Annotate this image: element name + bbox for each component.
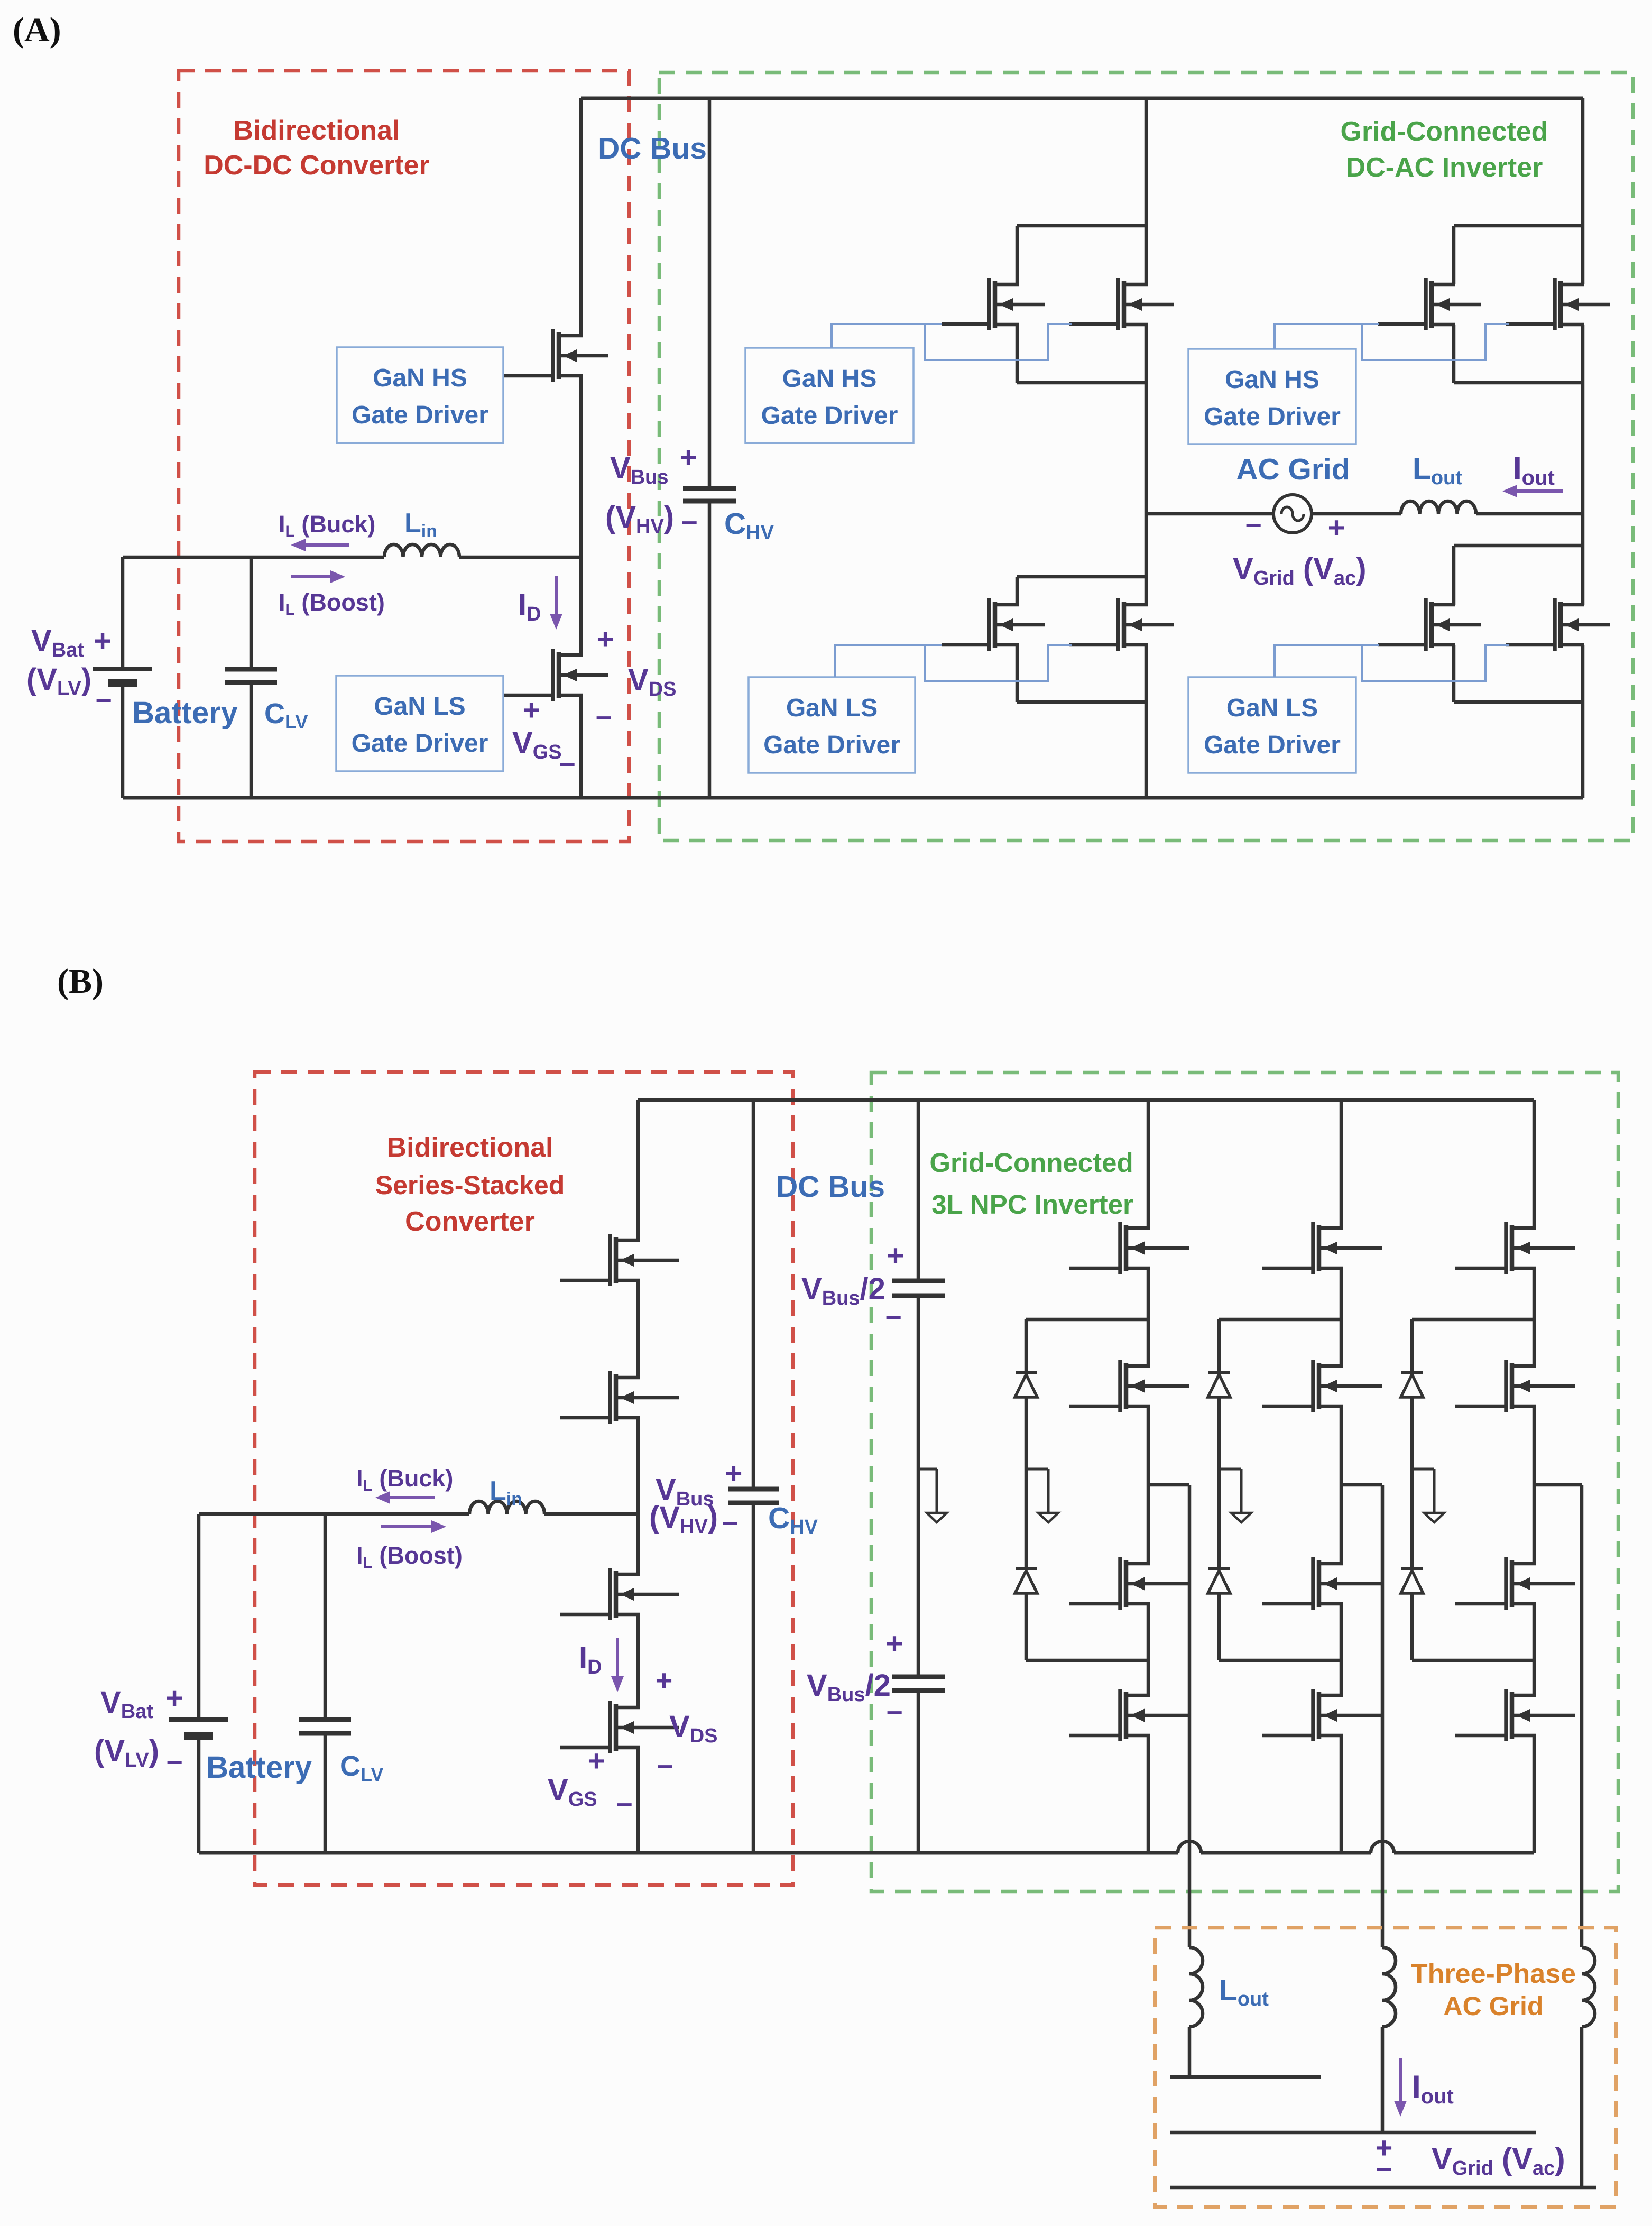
- svg-text:+: +: [886, 1627, 903, 1660]
- wire grid line 1 (B): [1170, 2075, 1321, 2079]
- svg-text:−: −: [559, 749, 576, 780]
- arrow IL buck direction (B): [386, 1496, 435, 1499]
- wire inverter leg x=2168 lower (A): [1145, 645, 1148, 798]
- svg-text:−: −: [722, 1508, 739, 1539]
- wire bottom return rail (B) with hops at phase outputs: [199, 1851, 1178, 1855]
- wire LS pair source rail (A leg 2168): [1016, 645, 1019, 702]
- svg-text:−: −: [657, 1751, 673, 1782]
- svg-text:−: −: [886, 1697, 903, 1729]
- transistor Q5 stacked third switch (B): [608, 1568, 612, 1620]
- wire NPC leg 1 phase output drop (B): [1188, 1485, 1192, 1947]
- gate driver U5 GaN HS Gate Driver (A leg2): [1188, 349, 1356, 444]
- wire HS gate stubs (A leg 2994): [1378, 322, 1426, 326]
- wire phase node (A leg 2994): [1581, 325, 1585, 605]
- svg-text:Series-Stacked: Series-Stacked: [375, 1170, 565, 1200]
- wire blue gate wiring 2 (box 2248 to right gate): [1362, 324, 1509, 360]
- wire Q2 source to return (A): [579, 695, 583, 798]
- wire grid line 3 (B): [1170, 2186, 1596, 2190]
- wire phase 3 to grid line 3 (B): [1580, 2027, 1584, 2187]
- transistor HS right device on leg 2994 (A): [1553, 278, 1557, 330]
- wire NPC leg 1 M3-M4 (B): [1147, 1604, 1150, 1695]
- svg-text:−: −: [616, 1789, 633, 1821]
- svg-text:DC-DC Converter: DC-DC Converter: [204, 150, 430, 181]
- diode NPC leg 3 clamp D2 (B): [1401, 1571, 1423, 1593]
- svg-text:GaN LS: GaN LS: [786, 694, 878, 722]
- wire NPC leg 1 top (B): [1147, 1100, 1150, 1228]
- transistor NPC leg 2 M1 (B): [1311, 1222, 1315, 1274]
- red dashed boundary: Bidirectional Series-Stacked Converter (B): [255, 1072, 793, 1885]
- wire blue gate wiring 2 (box 2248 to right gate): [1362, 645, 1509, 681]
- neutral tap arrow NPC leg 3 (B): [1412, 1468, 1434, 1471]
- wire inverter leg x=2168 upper (A): [1145, 98, 1148, 284]
- svg-text:3L NPC Inverter: 3L NPC Inverter: [931, 1189, 1133, 1220]
- gate driver U1 GaN HS Gate Driver (A DC-DC): [337, 347, 503, 443]
- wire blue gate wiring 2 (box 1416 to right gate): [925, 645, 1072, 681]
- transistor Q4 stacked second switch (B): [608, 1371, 612, 1424]
- wire NPC leg 3 top (B): [1533, 1100, 1536, 1228]
- svg-text:+: +: [680, 440, 697, 474]
- inductor Lin (A): [384, 544, 459, 557]
- wire NPC leg 3 clamp top connector (B): [1412, 1318, 1534, 1322]
- wire Q5 gate stub (B): [560, 1613, 610, 1617]
- wire HS pair drain rail (A leg 2994): [1454, 224, 1583, 228]
- wire between Q5 and Q6 (B): [636, 1614, 640, 1707]
- wire Q6 source to return (B): [636, 1748, 640, 1853]
- wire bottom return rail (A): [123, 796, 1583, 800]
- svg-text:Gate Driver: Gate Driver: [763, 731, 900, 759]
- capacitor VBus/2 lower (B): [892, 1675, 945, 1679]
- svg-text:−: −: [885, 1301, 902, 1333]
- svg-text:Gate Driver: Gate Driver: [352, 729, 488, 758]
- transistor NPC leg 3 M2 (B): [1504, 1360, 1508, 1412]
- wire NPC leg 2 M2 to output node (B): [1340, 1406, 1343, 1564]
- wire Q4 gate stub (B): [560, 1416, 610, 1420]
- wire LS pair drain rail (A leg 2994): [1454, 544, 1583, 548]
- svg-text:−: −: [595, 702, 612, 734]
- svg-text:GaN HS: GaN HS: [1225, 366, 1319, 394]
- wire battery input node (B): [199, 1512, 469, 1516]
- wire NPC leg 2 M3-M4 (B): [1340, 1604, 1343, 1695]
- svg-text:Bidirectional: Bidirectional: [234, 115, 400, 146]
- wire Q3 gate stub (B): [560, 1279, 610, 1282]
- transistor NPC leg 1 M4 (B): [1118, 1689, 1122, 1741]
- wire NPC leg 3 clamp string lower (B): [1410, 1593, 1414, 1660]
- svg-text:−: −: [1245, 510, 1262, 541]
- transistor NPC leg 1 M2 (B): [1118, 1360, 1122, 1412]
- gate driver U2 GaN LS Gate Driver (A DC-DC): [336, 676, 503, 771]
- wire AC output left segment (A): [1146, 512, 1273, 516]
- svg-text:Gate Driver: Gate Driver: [352, 401, 488, 429]
- svg-text:Gate Driver: Gate Driver: [1204, 731, 1341, 759]
- wire NPC leg 1 M2 to output node (B): [1147, 1406, 1150, 1564]
- wire NPC leg 2 M1-M2 (B): [1340, 1268, 1343, 1366]
- svg-text:GaN LS: GaN LS: [374, 692, 465, 721]
- capacitor VBus/2 upper (B): [892, 1279, 945, 1283]
- wire series-stacked leg top (B): [636, 1100, 640, 1240]
- wire phase node (A leg 2168): [1145, 325, 1148, 605]
- wire NPC leg 3 clamp string upper (B): [1410, 1319, 1414, 1373]
- svg-text:+: +: [94, 624, 112, 658]
- svg-text:+: +: [523, 693, 540, 726]
- svg-text:Gate Driver: Gate Driver: [761, 402, 898, 430]
- wire NPC leg 1 clamp top connector (B): [1026, 1318, 1148, 1322]
- wire LS pair source rail (A leg 2994): [1452, 645, 1456, 702]
- wire NPC leg 3 M2 to output node (B): [1533, 1406, 1536, 1564]
- gate driver U3 GaN HS Gate Driver (A leg1): [745, 348, 913, 443]
- transistor Q3 stacked top switch (B): [608, 1234, 612, 1286]
- wire Lin to switch node (A): [459, 556, 581, 559]
- wire Q2 gate lead (A): [503, 694, 553, 697]
- wire HS pair drain rail (A leg 2168): [1017, 224, 1146, 228]
- wire blue gate wiring 1 (box 2248 to gates at y=613): [1275, 324, 1379, 349]
- battery VBat (A): [121, 557, 125, 669]
- diode NPC leg 2 clamp D2 (B): [1208, 1571, 1230, 1593]
- svg-text:−: −: [681, 507, 698, 539]
- arrow IL buck direction (A): [301, 543, 349, 547]
- inductor Lout phase 3 (B): [1582, 1947, 1595, 2027]
- diode NPC leg 1 clamp D2 (B): [1015, 1571, 1037, 1593]
- wire AC source to Lout (A): [1312, 512, 1401, 516]
- capacitor CHV (A): [708, 98, 712, 488]
- svg-text:Gate Driver: Gate Driver: [1204, 403, 1341, 431]
- transistor LS right device on leg 2994 (A): [1553, 598, 1557, 651]
- svg-text:GaN LS: GaN LS: [1226, 694, 1318, 722]
- svg-text:GaN HS: GaN HS: [373, 364, 467, 392]
- wire top DC bus rail (B): [638, 1098, 1534, 1102]
- svg-text:−: −: [1376, 2154, 1392, 2185]
- svg-text:IL (Boost): IL (Boost): [279, 589, 385, 618]
- transistor NPC leg 3 M3 (B): [1504, 1557, 1508, 1610]
- wire grid line 2 (B): [1170, 2131, 1536, 2135]
- wire Q6 gate stub (B): [560, 1746, 610, 1750]
- wire NPC leg 1 bottom (B): [1147, 1735, 1150, 1853]
- transistor NPC leg 3 M1 (B): [1504, 1222, 1508, 1274]
- wire Lin to leg (B): [544, 1512, 638, 1516]
- wire NPC leg 1 clamp bottom connector (B): [1026, 1659, 1148, 1662]
- svg-text:Battery: Battery: [132, 696, 238, 730]
- wire NPC leg 1 M1-M2 (B): [1147, 1268, 1150, 1366]
- gate driver U6 GaN LS Gate Driver (A leg2): [1188, 677, 1356, 773]
- gate driver U4 GaN LS Gate Driver (A leg1): [749, 677, 915, 773]
- wire HS pair source rail (A leg 2994): [1452, 325, 1456, 383]
- neutral tap arrow NPC leg 1 (B): [1026, 1468, 1048, 1471]
- svg-text:+: +: [725, 1456, 743, 1490]
- neutral tap arrow from split-capacitor midpoint (B): [918, 1468, 937, 1471]
- arrow IL boost direction (B): [381, 1525, 436, 1528]
- wire phase 2 to grid line 2 (B): [1381, 2027, 1385, 2132]
- wire NPC leg 2 top (B): [1340, 1100, 1343, 1228]
- wire between Q3 and Q4 (B): [636, 1280, 640, 1378]
- wire phase 1 to grid line 1 (B): [1188, 2027, 1192, 2077]
- transistor HS left paralleled device (A leg 2168): [987, 278, 991, 330]
- svg-text:+: +: [597, 622, 614, 655]
- svg-text:Converter: Converter: [405, 1206, 535, 1237]
- wire blue gate wiring 1 (box 2248 to gates at y=1220): [1275, 645, 1379, 677]
- wire NPC leg 3 clamp bottom connector (B): [1412, 1659, 1534, 1662]
- wire NPC leg 3 phase output tap (B): [1534, 1483, 1582, 1487]
- arrow Iout direction (A): [1513, 489, 1563, 493]
- wire NPC leg 3 bottom (B): [1533, 1735, 1536, 1853]
- wire inverter leg x=2994 upper (A): [1581, 98, 1585, 284]
- wire NPC leg 1 clamp string lower (B): [1025, 1593, 1028, 1660]
- neutral tap arrow NPC leg 2 (B): [1219, 1468, 1241, 1471]
- svg-text:−: −: [166, 1747, 183, 1778]
- transistor LS left paralleled device (A leg 2168): [987, 598, 991, 651]
- wire LS pair drain rail (A leg 2168): [1017, 575, 1146, 579]
- svg-text:Three-Phase: Three-Phase: [1411, 1959, 1576, 1989]
- wire NPC leg 2 clamp bottom connector (B): [1219, 1659, 1341, 1662]
- svg-text:+: +: [165, 1681, 183, 1715]
- arrow IL boost direction (A): [291, 575, 335, 578]
- wire blue gate wiring 1 (box 1410 to gates at y=613): [832, 324, 942, 348]
- transistor NPC leg 1 M1 (B): [1118, 1222, 1122, 1274]
- wire Q4 source to Lin node (B): [636, 1418, 640, 1574]
- wire HS gate stubs (A leg 2168): [942, 322, 989, 326]
- svg-text:+: +: [1328, 511, 1345, 544]
- orange dashed boundary: Three-Phase AC Grid (B): [1155, 1928, 1616, 2207]
- inductor Lout phase 2 (B): [1382, 1947, 1396, 2027]
- diode NPC leg 3 clamp D1 (B): [1401, 1374, 1423, 1397]
- wire DC-DC switching leg upper (A): [579, 98, 583, 336]
- wire NPC leg 2 phase output drop (B): [1381, 1485, 1385, 1947]
- svg-text:+: +: [588, 1744, 605, 1777]
- transistor NPC leg 2 M3 (B): [1311, 1557, 1315, 1610]
- wire LS gate stubs (A leg 2994): [1378, 643, 1426, 647]
- svg-text:DC Bus: DC Bus: [598, 132, 707, 165]
- wire NPC leg 3 M1-M2 (B): [1533, 1268, 1536, 1366]
- transistor LS left paralleled device (A leg 2994): [1424, 598, 1428, 651]
- transistor NPC leg 2 M4 (B): [1311, 1689, 1315, 1741]
- svg-text:Battery: Battery: [206, 1750, 312, 1785]
- wire top DC bus rail (A): [581, 97, 1583, 100]
- svg-text:(B): (B): [57, 962, 104, 1001]
- svg-text:−: −: [95, 685, 112, 716]
- wire HS pair source rail (A leg 2168): [1016, 325, 1019, 383]
- transistor LS right device on leg 2168 (A): [1116, 598, 1120, 651]
- svg-text:Grid-Connected: Grid-Connected: [929, 1148, 1133, 1178]
- wire NPC leg 2 clamp string upper (B): [1217, 1319, 1221, 1373]
- wire NPC leg 3 clamp string middle (B): [1410, 1397, 1414, 1569]
- wire NPC leg 2 bottom (B): [1340, 1735, 1343, 1853]
- inductor Lout (A): [1401, 501, 1476, 514]
- wire NPC leg 1 clamp string upper (B): [1025, 1319, 1028, 1373]
- wire Lout to leg2 (A): [1476, 512, 1583, 516]
- wire NPC leg 3 phase output drop (B): [1580, 1485, 1584, 1947]
- transistor NPC leg 2 M2 (B): [1311, 1360, 1315, 1412]
- green dashed boundary: Grid-Connected DC-AC Inverter (A): [659, 72, 1633, 840]
- wire blue gate wiring 1 (box 1416 to gates at y=1220): [835, 645, 942, 677]
- green dashed boundary: Grid-Connected 3L NPC Inverter (B): [871, 1073, 1618, 1891]
- svg-text:+: +: [656, 1664, 673, 1697]
- capacitor CLV (B): [324, 1514, 327, 1720]
- red dashed boundary: Bidirectional DC-DC Converter (A): [179, 71, 629, 842]
- svg-text:Bidirectional: Bidirectional: [387, 1132, 553, 1163]
- inductor Lin (B): [469, 1501, 544, 1514]
- transistor NPC leg 1 M3 (B): [1118, 1557, 1122, 1610]
- svg-text:AC Grid: AC Grid: [1236, 452, 1350, 486]
- wire NPC leg 1 phase output tap (B): [1148, 1483, 1189, 1487]
- transistor HS right device on leg 2168 (A): [1116, 278, 1120, 330]
- wire NPC leg 3 M3-M4 (B): [1533, 1604, 1536, 1695]
- svg-text:IL (Boost): IL (Boost): [356, 1542, 463, 1572]
- wire LS gate stubs (A leg 2168): [942, 643, 989, 647]
- svg-text:Grid-Connected: Grid-Connected: [1341, 116, 1548, 147]
- transistor HS left paralleled device (A leg 2994): [1424, 278, 1428, 330]
- transistor NPC leg 3 M4 (B): [1504, 1689, 1508, 1741]
- source AC Grid (A): [1273, 495, 1312, 533]
- transistor Q6 stacked bottom switch (B): [608, 1701, 612, 1753]
- svg-text:GaN HS: GaN HS: [782, 365, 877, 393]
- wire split-capacitor leg (B): [917, 1100, 920, 1281]
- wire NPC leg 2 clamp string middle (B): [1217, 1397, 1221, 1569]
- svg-text:DC Bus: DC Bus: [776, 1170, 885, 1204]
- wire NPC leg 2 phase output tap (B): [1341, 1483, 1382, 1487]
- wire blue gate wiring 2 (box 1410 to right gate): [925, 324, 1072, 360]
- wire NPC leg 2 clamp string lower (B): [1217, 1593, 1221, 1660]
- wire NPC leg 1 clamp string middle (B): [1025, 1397, 1028, 1569]
- transistor Q1 GaN HS switch (A): [551, 329, 555, 382]
- svg-text:+: +: [887, 1239, 905, 1272]
- capacitor CHV (B): [752, 1100, 755, 1489]
- wire inverter leg x=2994 lower (A): [1581, 645, 1585, 798]
- wire Q1 gate lead (A): [503, 374, 553, 378]
- battery VBat (B): [197, 1514, 201, 1720]
- inductor Lout phase 1 (B): [1189, 1947, 1203, 2027]
- wire NPC leg 2 clamp top connector (B): [1219, 1318, 1341, 1322]
- transistor Q2 GaN LS switch (A): [551, 649, 555, 701]
- svg-text:(A): (A): [13, 11, 61, 49]
- wire DC-DC switch node (A): [579, 376, 583, 655]
- svg-text:AC Grid: AC Grid: [1444, 1991, 1544, 2021]
- wire battery input node (A): [123, 556, 384, 559]
- svg-text:DC-AC Inverter: DC-AC Inverter: [1346, 152, 1543, 183]
- diode NPC leg 2 clamp D1 (B): [1208, 1374, 1230, 1397]
- diode NPC leg 1 clamp D1 (B): [1015, 1374, 1037, 1397]
- capacitor CLV (A): [250, 557, 253, 669]
